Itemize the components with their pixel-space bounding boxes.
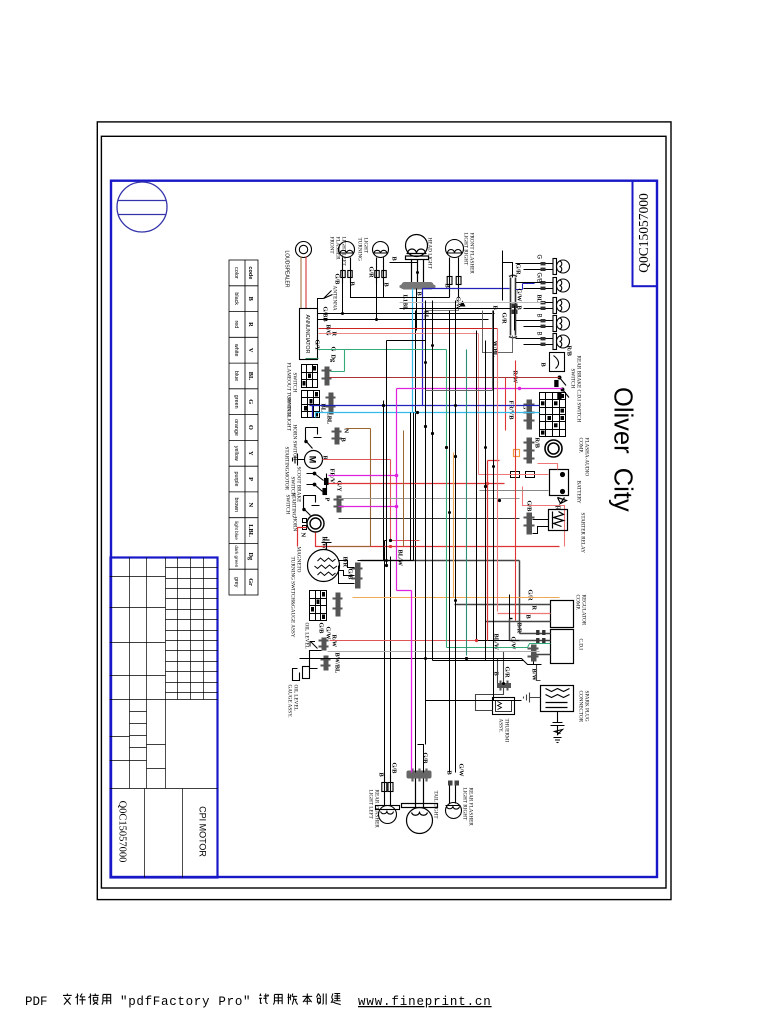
wire b/r black mid bbox=[510, 595, 513, 619]
outer sheet frame bbox=[97, 122, 671, 900]
headlight connector bar bbox=[400, 282, 436, 290]
red junction dots bbox=[389, 482, 489, 642]
svg-text:blue: blue bbox=[233, 371, 239, 381]
wire regulator leads bbox=[455, 605, 551, 622]
svg-text:TURNING SWITCH&GAUGE ASSY: TURNING SWITCH&GAUGE ASSY bbox=[290, 557, 296, 638]
oil level connector bbox=[319, 638, 329, 651]
wire R red from motor bbox=[323, 460, 420, 541]
wire bus red annunciator bbox=[319, 328, 498, 330]
svg-text:B: B bbox=[340, 438, 347, 443]
panel bulb 5 bbox=[516, 334, 570, 350]
svg-text:REAR BRAKE C.D.I SWITCH: REAR BRAKE C.D.I SWITCH bbox=[576, 356, 582, 423]
svg-text:N: N bbox=[247, 503, 254, 508]
projection symbol circle bbox=[117, 182, 167, 232]
panel bulb 3 bbox=[516, 298, 570, 314]
battery bbox=[550, 470, 569, 496]
svg-text:B: B bbox=[391, 257, 398, 262]
rear flasher light right bulb bbox=[446, 781, 462, 819]
flameout switch grid A bbox=[302, 365, 318, 388]
horn bbox=[307, 515, 324, 532]
svg-text:N: N bbox=[343, 429, 350, 434]
svg-text:orange: orange bbox=[233, 419, 239, 436]
svg-text:white: white bbox=[233, 343, 239, 357]
svg-text:R/G: R/G bbox=[325, 325, 332, 336]
svg-text:LIGHT RIGHT: LIGHT RIGHT bbox=[463, 233, 469, 266]
wire B from turning light bbox=[383, 284, 385, 298]
wire B from front flasher right bbox=[364, 297, 450, 299]
svg-text:LIGHT LEFT: LIGHT LEFT bbox=[341, 237, 347, 267]
svg-text:"pdfFactory Pro": "pdfFactory Pro" bbox=[120, 995, 251, 1009]
wire relay to bar bbox=[533, 520, 549, 534]
svg-text:P: P bbox=[247, 477, 254, 481]
wire gray oil bbox=[328, 651, 540, 653]
wire bus black h1 bbox=[358, 401, 384, 561]
svg-text:B: B bbox=[492, 306, 499, 311]
svg-text:BW/BL: BW/BL bbox=[334, 653, 341, 674]
svg-text:G/R: G/R bbox=[515, 264, 522, 276]
svg-text:G: G bbox=[247, 399, 254, 404]
battery connector bar bbox=[524, 438, 535, 464]
spark plug bbox=[551, 712, 565, 743]
svg-text:PDF: PDF bbox=[25, 995, 48, 1009]
flasher audio connector bar bbox=[524, 400, 535, 430]
svg-text:G/B: G/B bbox=[526, 501, 533, 513]
wire black starting b bbox=[339, 518, 520, 520]
cdi box bbox=[551, 630, 574, 664]
wire bus magenta tail bbox=[411, 591, 413, 773]
starting switch bbox=[303, 496, 320, 516]
svg-text:LIGHT: LIGHT bbox=[363, 238, 369, 254]
svg-text:LOUDSPEALER: LOUDSPEALER bbox=[284, 251, 290, 288]
wire bus cyan bbox=[316, 413, 540, 418]
flameout grid A connector bar bbox=[322, 367, 332, 386]
motor M bbox=[305, 451, 323, 469]
wire LBL cyan from headlight bbox=[412, 289, 414, 413]
svg-text:BL: BL bbox=[247, 372, 254, 380]
front flasher light right bulb bbox=[446, 240, 464, 298]
tail light bulb bbox=[402, 779, 438, 834]
svg-text:P: P bbox=[324, 498, 331, 502]
svg-text:ANNUNCIATOR: ANNUNCIATOR bbox=[304, 314, 310, 353]
svg-text:CPI MOTOR: CPI MOTOR bbox=[198, 806, 208, 857]
wire B from front flasher left bbox=[351, 284, 364, 298]
svg-text:Dg: Dg bbox=[247, 552, 254, 561]
svg-text:N: N bbox=[300, 533, 307, 538]
wire G/B from front flasher left bbox=[318, 284, 495, 320]
title block bbox=[110, 558, 218, 878]
wire bus green h bbox=[447, 350, 551, 648]
orange connector bbox=[514, 450, 520, 457]
svg-text:COMP.: COMP. bbox=[575, 595, 581, 610]
wire bus black h8 bbox=[449, 311, 451, 773]
wire bus blue bbox=[310, 406, 540, 418]
wire gray starting bbox=[339, 498, 520, 500]
svg-text:FRONT: FRONT bbox=[329, 237, 335, 255]
panel connector bar bbox=[509, 275, 517, 338]
svg-text:R/B: R/B bbox=[534, 438, 541, 449]
svg-text:code: code bbox=[247, 266, 253, 279]
turning gauge grid bbox=[310, 591, 327, 621]
svg-text:Gr: Gr bbox=[247, 578, 254, 586]
panel bulb 4 bbox=[516, 316, 570, 332]
svg-text:CONNECTOR: CONNECTOR bbox=[578, 691, 584, 723]
svg-text:Oliver City: Oliver City bbox=[609, 387, 637, 512]
svg-text:BATTERY: BATTERY bbox=[576, 481, 582, 504]
flasher audio connector grid bbox=[540, 393, 566, 437]
flameout grid B connector bar bbox=[326, 393, 336, 415]
svg-text:G/W: G/W bbox=[458, 764, 465, 778]
svg-text:SWITCH: SWITCH bbox=[285, 495, 291, 515]
wires magneto to bar bbox=[339, 561, 355, 584]
svg-text:color: color bbox=[233, 267, 239, 279]
svg-text:G/BB: G/BB bbox=[322, 307, 329, 323]
panel bulb 1 bbox=[516, 259, 570, 275]
svg-text:HORN SWITCH: HORN SWITCH bbox=[292, 425, 298, 461]
svg-text:B: B bbox=[536, 332, 542, 336]
wire bus black h6 bbox=[433, 301, 524, 661]
svg-text:G/B: G/B bbox=[391, 763, 398, 775]
svg-text:G/B: G/B bbox=[347, 569, 354, 581]
wire red R/W brake bbox=[505, 378, 507, 431]
svg-text:ANTENNA: ANTENNA bbox=[332, 286, 338, 311]
starter relay bbox=[549, 510, 568, 531]
front brake switch a bbox=[307, 472, 329, 489]
svg-text:SWITCH: SWITCH bbox=[570, 369, 576, 389]
wire bus magenta 1 bbox=[397, 388, 563, 390]
thermi connector bar bbox=[497, 681, 511, 691]
svg-text:G/R: G/R bbox=[527, 590, 534, 602]
wires tail light bbox=[416, 311, 424, 773]
svg-text:brown: brown bbox=[233, 497, 239, 512]
wire magenta brake bbox=[329, 389, 412, 591]
svg-text:G/W: G/W bbox=[516, 289, 523, 303]
rear brake switch blades bbox=[555, 376, 569, 398]
drawing number box bbox=[633, 181, 658, 287]
audio comp circle bbox=[545, 440, 562, 457]
wire bus black h2 bbox=[387, 341, 426, 566]
svg-text:BL/W: BL/W bbox=[397, 550, 404, 567]
thermi wires bbox=[476, 652, 504, 711]
wire color legend table bbox=[229, 260, 258, 595]
wire bus black h9 bbox=[477, 331, 520, 641]
wire orange bus bbox=[353, 597, 560, 599]
cdi connector bar bbox=[528, 645, 539, 662]
relay connector bar bbox=[524, 513, 535, 535]
svg-text:C.D.I: C.D.I bbox=[578, 639, 584, 651]
schematic bbox=[284, 233, 590, 834]
svg-text:V: V bbox=[247, 348, 254, 353]
wire bus black h10 bbox=[486, 341, 524, 661]
flameout switch grid B bbox=[302, 391, 320, 418]
wire bus dark green bbox=[306, 358, 319, 360]
rear brake cdi switch box bbox=[550, 353, 565, 372]
wire B/W to coil bbox=[524, 665, 541, 703]
svg-text:B: B bbox=[378, 773, 385, 778]
svg-text:Q0C15057000: Q0C15057000 bbox=[636, 193, 651, 273]
wire magenta starting bbox=[339, 506, 397, 508]
wire loudspeaker to annunciator (red) bbox=[305, 257, 307, 309]
svg-text:O: O bbox=[247, 425, 254, 430]
wire loudspeaker to annunciator (brown) bbox=[300, 257, 302, 309]
head light bulb bbox=[406, 235, 429, 283]
wire red annunciator 2 bbox=[319, 334, 479, 475]
svg-text:www.fineprint.cn: www.fineprint.cn bbox=[358, 995, 492, 1009]
wire G/R from turning light bbox=[376, 284, 378, 320]
thermi assy unit bbox=[493, 698, 515, 715]
wire bus red h2 bbox=[497, 329, 499, 612]
spark plug connector (ignition coil) bbox=[541, 686, 574, 712]
loudspeaker bbox=[296, 242, 312, 258]
antenna bbox=[318, 291, 333, 309]
wire red brake long bbox=[329, 483, 505, 485]
svg-text:yellow: yellow bbox=[233, 446, 239, 461]
svg-text:SWITCH: SWITCH bbox=[286, 397, 292, 417]
svg-text:LBL: LBL bbox=[247, 524, 254, 537]
svg-text:M: M bbox=[308, 456, 318, 464]
headlight B tee bbox=[390, 263, 418, 284]
svg-text:B: B bbox=[540, 363, 547, 368]
wire G/R from bar left bbox=[503, 251, 513, 278]
svg-text:B: B bbox=[525, 615, 532, 620]
svg-text:R: R bbox=[531, 606, 538, 611]
gray Gr wire bbox=[400, 302, 545, 304]
wire bus black wbl bbox=[426, 311, 493, 391]
svg-text:BL: BL bbox=[320, 404, 327, 412]
svg-text:B: B bbox=[247, 297, 254, 302]
svg-text:STARTINGMOTOR: STARTINGMOTOR bbox=[284, 447, 290, 491]
wire relay red bbox=[480, 490, 549, 492]
turning light bulb bbox=[373, 242, 389, 284]
svg-text:G: G bbox=[536, 255, 542, 260]
wire black oil bbox=[300, 659, 542, 665]
svg-text:G/W: G/W bbox=[510, 637, 517, 651]
svg-text:G/R: G/R bbox=[368, 267, 375, 279]
svg-text:green: green bbox=[233, 395, 239, 409]
wire BL blue drop bbox=[423, 288, 510, 290]
wire G/W from front flasher right bbox=[426, 298, 459, 311]
svg-text:ASSY.: ASSY. bbox=[498, 719, 504, 733]
svg-text:G/B: G/B bbox=[536, 273, 542, 283]
wire bus red h3 bbox=[515, 361, 517, 621]
svg-text:COMP.: COMP. bbox=[578, 438, 584, 453]
annunciator U1 bbox=[300, 309, 318, 360]
oil gauge assy bracket bbox=[293, 651, 322, 681]
cdi leads bbox=[361, 561, 551, 655]
wire bus brown h bbox=[403, 431, 405, 547]
arrow marker bbox=[460, 301, 466, 307]
svg-text:black: black bbox=[233, 292, 239, 305]
svg-text:HORN: HORN bbox=[292, 517, 298, 532]
wire B black from headlight bbox=[416, 289, 418, 331]
wire bus black long bbox=[493, 311, 495, 701]
wire bus green annunciator bbox=[319, 350, 447, 372]
svg-text:G/B: G/B bbox=[422, 753, 429, 765]
svg-text:R/W: R/W bbox=[331, 635, 338, 648]
wire bus black h5 bbox=[426, 301, 522, 745]
wire bus dark red bbox=[330, 377, 560, 379]
horn switch connector bar bbox=[332, 428, 342, 445]
oil gauge connector bbox=[321, 656, 331, 671]
front flasher light left bulb bbox=[339, 242, 355, 284]
svg-text:dark green: dark green bbox=[234, 545, 239, 567]
svg-text:R/B: R/B bbox=[566, 346, 573, 357]
fuse pair bbox=[511, 472, 535, 478]
wire B panel bbox=[400, 308, 512, 310]
wire bus red h1 bbox=[488, 461, 500, 641]
magneto bbox=[308, 550, 340, 582]
pin pair top right bbox=[512, 304, 518, 309]
wire W/BL bbox=[483, 311, 513, 353]
wire bus teal h bbox=[466, 350, 468, 656]
svg-text:FR/VB: FR/VB bbox=[508, 401, 515, 421]
front brake switch b bbox=[307, 483, 327, 494]
svg-text:OIL LEVEL: OIL LEVEL bbox=[304, 623, 310, 649]
svg-text:Y: Y bbox=[247, 451, 254, 456]
blue step to bulb2 bbox=[516, 284, 535, 290]
battery loop wire pink bbox=[479, 464, 565, 547]
svg-text:GAUGE ASSY.: GAUGE ASSY. bbox=[287, 685, 293, 718]
wire red oil bbox=[330, 640, 488, 642]
tail light connector bar bbox=[407, 769, 432, 782]
motor ground bbox=[293, 454, 305, 466]
svg-text:R: R bbox=[247, 322, 254, 327]
wire bus black h7 bbox=[455, 301, 457, 773]
svg-text:Dg: Dg bbox=[330, 355, 337, 364]
svg-text:red: red bbox=[233, 321, 239, 329]
svg-text:B: B bbox=[536, 314, 542, 318]
panel bulb 2 bbox=[516, 278, 570, 294]
svg-text:G/R: G/R bbox=[504, 667, 511, 679]
svg-text:FLASHER: FLASHER bbox=[335, 237, 341, 261]
extra junction dots bbox=[341, 312, 505, 685]
wire bl/w to cdi bar bbox=[534, 662, 537, 665]
cdi lead pin pairs bbox=[536, 630, 545, 643]
wire horn red bbox=[298, 528, 560, 547]
svg-text:STARTER RELAY: STARTER RELAY bbox=[580, 513, 586, 554]
wire brown horn feed bbox=[330, 429, 371, 547]
svg-text:purple: purple bbox=[233, 472, 239, 487]
svg-text:SWITCH: SWITCH bbox=[292, 373, 298, 393]
footer line bbox=[25, 994, 492, 1010]
turning gauge connector bar bbox=[333, 593, 343, 617]
magneto ground bbox=[322, 538, 332, 550]
magenta junction dots bbox=[395, 474, 399, 509]
horn switch bbox=[305, 428, 322, 449]
svg-text:G/B: G/B bbox=[318, 623, 325, 635]
svg-text:light blue: light blue bbox=[234, 521, 239, 540]
blue drawing border bbox=[111, 181, 657, 877]
svg-text:TURNING: TURNING bbox=[357, 238, 363, 262]
magneto connector bar bbox=[352, 563, 363, 589]
svg-text:LIGHT RIGHT: LIGHT RIGHT bbox=[462, 788, 468, 821]
junction dots bbox=[382, 404, 501, 660]
svg-text:G/B: G/B bbox=[334, 274, 341, 286]
wire G/R top right bbox=[503, 263, 515, 331]
wires rear flasher right bbox=[767, 0, 768, 2]
svg-text:LIGHT LEFT: LIGHT LEFT bbox=[368, 790, 374, 820]
svg-text:Q0C15057000: Q0C15057000 bbox=[117, 801, 128, 863]
svg-text:G/Y: G/Y bbox=[336, 481, 343, 493]
svg-text:B: B bbox=[349, 282, 356, 287]
rear flasher light left bulb bbox=[376, 775, 400, 824]
wire BL blue from headlight bbox=[422, 289, 424, 406]
svg-text:TAIL LIGHT: TAIL LIGHT bbox=[433, 791, 439, 820]
regulator comp bbox=[551, 601, 574, 628]
svg-text:grey: grey bbox=[233, 577, 239, 588]
starting switch connector bar bbox=[334, 496, 344, 513]
wires rear flasher left bbox=[385, 541, 391, 775]
svg-text:G/R: G/R bbox=[501, 313, 508, 325]
oil sender hook bbox=[310, 642, 318, 649]
svg-text:HEAD LIGHT: HEAD LIGHT bbox=[427, 238, 433, 270]
svg-text:BL: BL bbox=[536, 295, 542, 303]
inner sheet frame bbox=[101, 136, 666, 888]
wire black pair mid bbox=[361, 413, 414, 561]
svg-text:LBL: LBL bbox=[326, 412, 333, 425]
wire orange branch bbox=[453, 453, 455, 598]
